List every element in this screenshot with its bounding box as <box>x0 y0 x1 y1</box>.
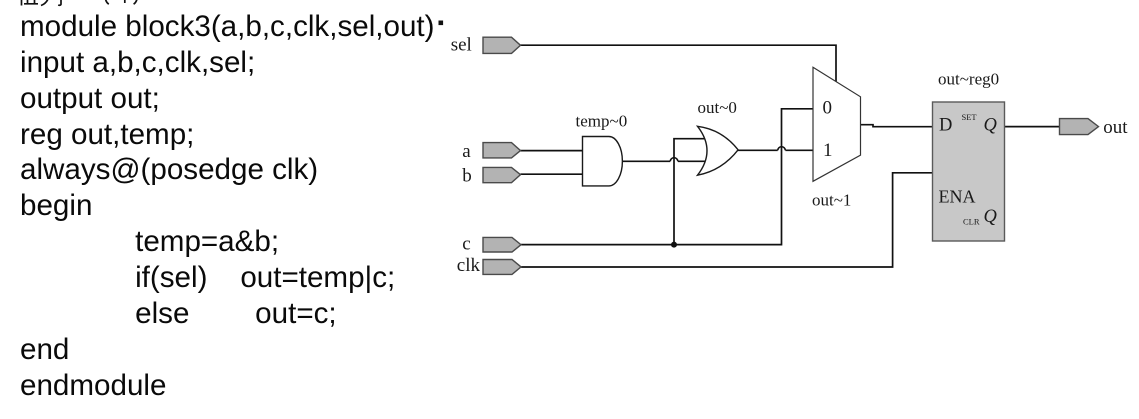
clipped CJK heading fragments (程序（4）bottoms) <box>22 0 138 6</box>
svg-text:b: b <box>462 165 472 186</box>
input pin sel <box>483 37 521 53</box>
wire b: pin to AND input 2 <box>521 173 585 175</box>
junction dot on c net <box>671 242 677 248</box>
svg-text:CLR: CLR <box>963 216 980 226</box>
svg-text:clk: clk <box>457 255 481 276</box>
wire c: pin through junction up to mux input 0 <box>521 109 813 245</box>
svg-text:sel: sel <box>451 34 472 55</box>
wire clk: pin to ENA input <box>521 173 933 267</box>
stray dot after out) <box>439 21 444 26</box>
input pin b <box>483 167 521 182</box>
AND gate temp~0 <box>583 137 623 186</box>
input pin clk <box>483 260 521 275</box>
output pin out <box>1060 119 1099 135</box>
svg-text:out~reg0: out~reg0 <box>938 69 999 88</box>
svg-text:Q: Q <box>984 207 998 227</box>
wire sel: pin to mux select <box>521 45 837 81</box>
input pin a <box>483 143 521 158</box>
svg-text:Q: Q <box>984 116 998 136</box>
verilog source code text <box>20 0 435 404</box>
svg-text:a: a <box>462 141 471 162</box>
input pin c <box>483 237 521 252</box>
svg-text:out: out <box>1103 117 1128 138</box>
svg-text:SET: SET <box>962 112 978 122</box>
mux out~1 <box>813 67 861 181</box>
svg-text:1: 1 <box>823 140 833 161</box>
wire Q output to out pin <box>1005 126 1060 128</box>
OR gate out~0 <box>698 126 739 175</box>
wire OR output to mux input 1 (hop over c net) <box>737 147 813 151</box>
svg-text:0: 0 <box>823 98 833 119</box>
wire mux output to D input <box>861 125 933 127</box>
svg-text:D: D <box>939 116 952 136</box>
svg-text:out~1: out~1 <box>812 191 851 210</box>
svg-text:out~0: out~0 <box>698 98 737 117</box>
D flip-flop out~reg0 <box>933 102 1005 241</box>
svg-text:c: c <box>462 234 470 255</box>
wire AND output to OR lower input (hop over c net) <box>621 158 710 162</box>
wire a: pin to AND input 1 <box>521 150 585 152</box>
svg-text:temp~0: temp~0 <box>576 112 628 131</box>
svg-text:ENA: ENA <box>939 187 976 207</box>
wire c net vertical to OR upper input <box>674 139 710 245</box>
